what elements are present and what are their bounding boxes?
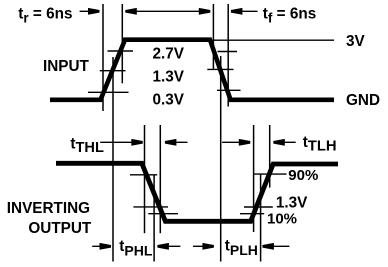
arrow pointing right at V10	[222, 139, 250, 146]
input waveform	[50, 40, 334, 100]
tick 10% output rising	[240, 213, 264, 215]
arrow tr pointing right at V1	[80, 8, 100, 15]
svg-text:1.3V: 1.3V	[276, 194, 308, 211]
3V reference line	[214, 39, 334, 41]
tick 1.3V output falling	[133, 206, 168, 208]
inverting output waveform	[56, 163, 338, 221]
arrow tPHL pointing left at V8	[157, 243, 180, 250]
svg-text:OUTPUT: OUTPUT	[28, 220, 92, 237]
measurement line V10 output rising 10%	[253, 125, 255, 232]
measurement line V9 output falling 10%	[159, 125, 161, 233]
measurement line V3 input rising 2.7V	[121, 4, 123, 83]
tick 2.7V input falling	[218, 51, 238, 53]
arrow tf pointing left at V6	[231, 8, 258, 15]
svg-text:INPUT: INPUT	[43, 58, 90, 75]
tick 90% output rising	[254, 173, 287, 175]
measurement line V5 input falling 1.3V	[220, 56, 222, 262]
svg-text:tPLH: tPLH	[225, 237, 258, 258]
arrow pair between rise and fall pointing outward	[125, 8, 210, 15]
svg-text:INVERTING: INVERTING	[7, 200, 90, 217]
arrow tPLH pointing right at V5	[193, 243, 214, 250]
svg-text:10%: 10%	[267, 211, 297, 228]
arrow tPHL pointing right at V2	[92, 243, 111, 250]
measurement line V8 output falling 1.3V	[153, 175, 155, 262]
measurement line V12 output rising 90%	[269, 125, 271, 188]
svg-text:0.3V: 0.3V	[153, 92, 185, 109]
tick 1.3V input rising	[100, 70, 126, 72]
svg-text:tTLH: tTLH	[303, 134, 337, 155]
tick 0.3V input rising	[88, 91, 129, 93]
arrow tTHL pointing right at V7	[100, 139, 143, 146]
tick 2.7V input rising	[108, 50, 134, 52]
tick 0.3V input falling	[217, 89, 241, 91]
svg-text:GND: GND	[346, 92, 380, 109]
tick 1.3V input falling	[207, 68, 233, 70]
svg-text:tf = 6ns: tf = 6ns	[263, 6, 316, 26]
svg-text:2.7V: 2.7V	[153, 45, 185, 62]
arrow tTLH pointing left at V12	[273, 139, 295, 146]
tick 1.3V output rising	[244, 206, 273, 208]
arrow tPLH pointing left at V11	[262, 243, 289, 250]
measurement line V2 input rising 1.3V	[112, 57, 114, 262]
measurement line V6 input falling 0.3V	[227, 4, 229, 107]
tick 90% output falling	[130, 174, 157, 176]
svg-text:tTHL: tTHL	[70, 135, 104, 156]
arrow pointing left at V9	[165, 139, 188, 146]
svg-text:tr = 6ns: tr = 6ns	[18, 6, 72, 26]
tick 10% output falling	[148, 213, 178, 215]
svg-text:3V: 3V	[346, 33, 366, 50]
svg-text:1.3V: 1.3V	[153, 69, 185, 86]
measurement line V7 output falling 90%	[144, 125, 146, 233]
measurement line V4 input falling 2.7V	[212, 4, 214, 70]
svg-text:tPHL: tPHL	[119, 238, 153, 258]
measurement line V11 output rising 1.3V	[260, 174, 262, 261]
measurement line V1 input rising 0.3V	[102, 4, 104, 111]
svg-text:90%: 90%	[288, 167, 318, 184]
